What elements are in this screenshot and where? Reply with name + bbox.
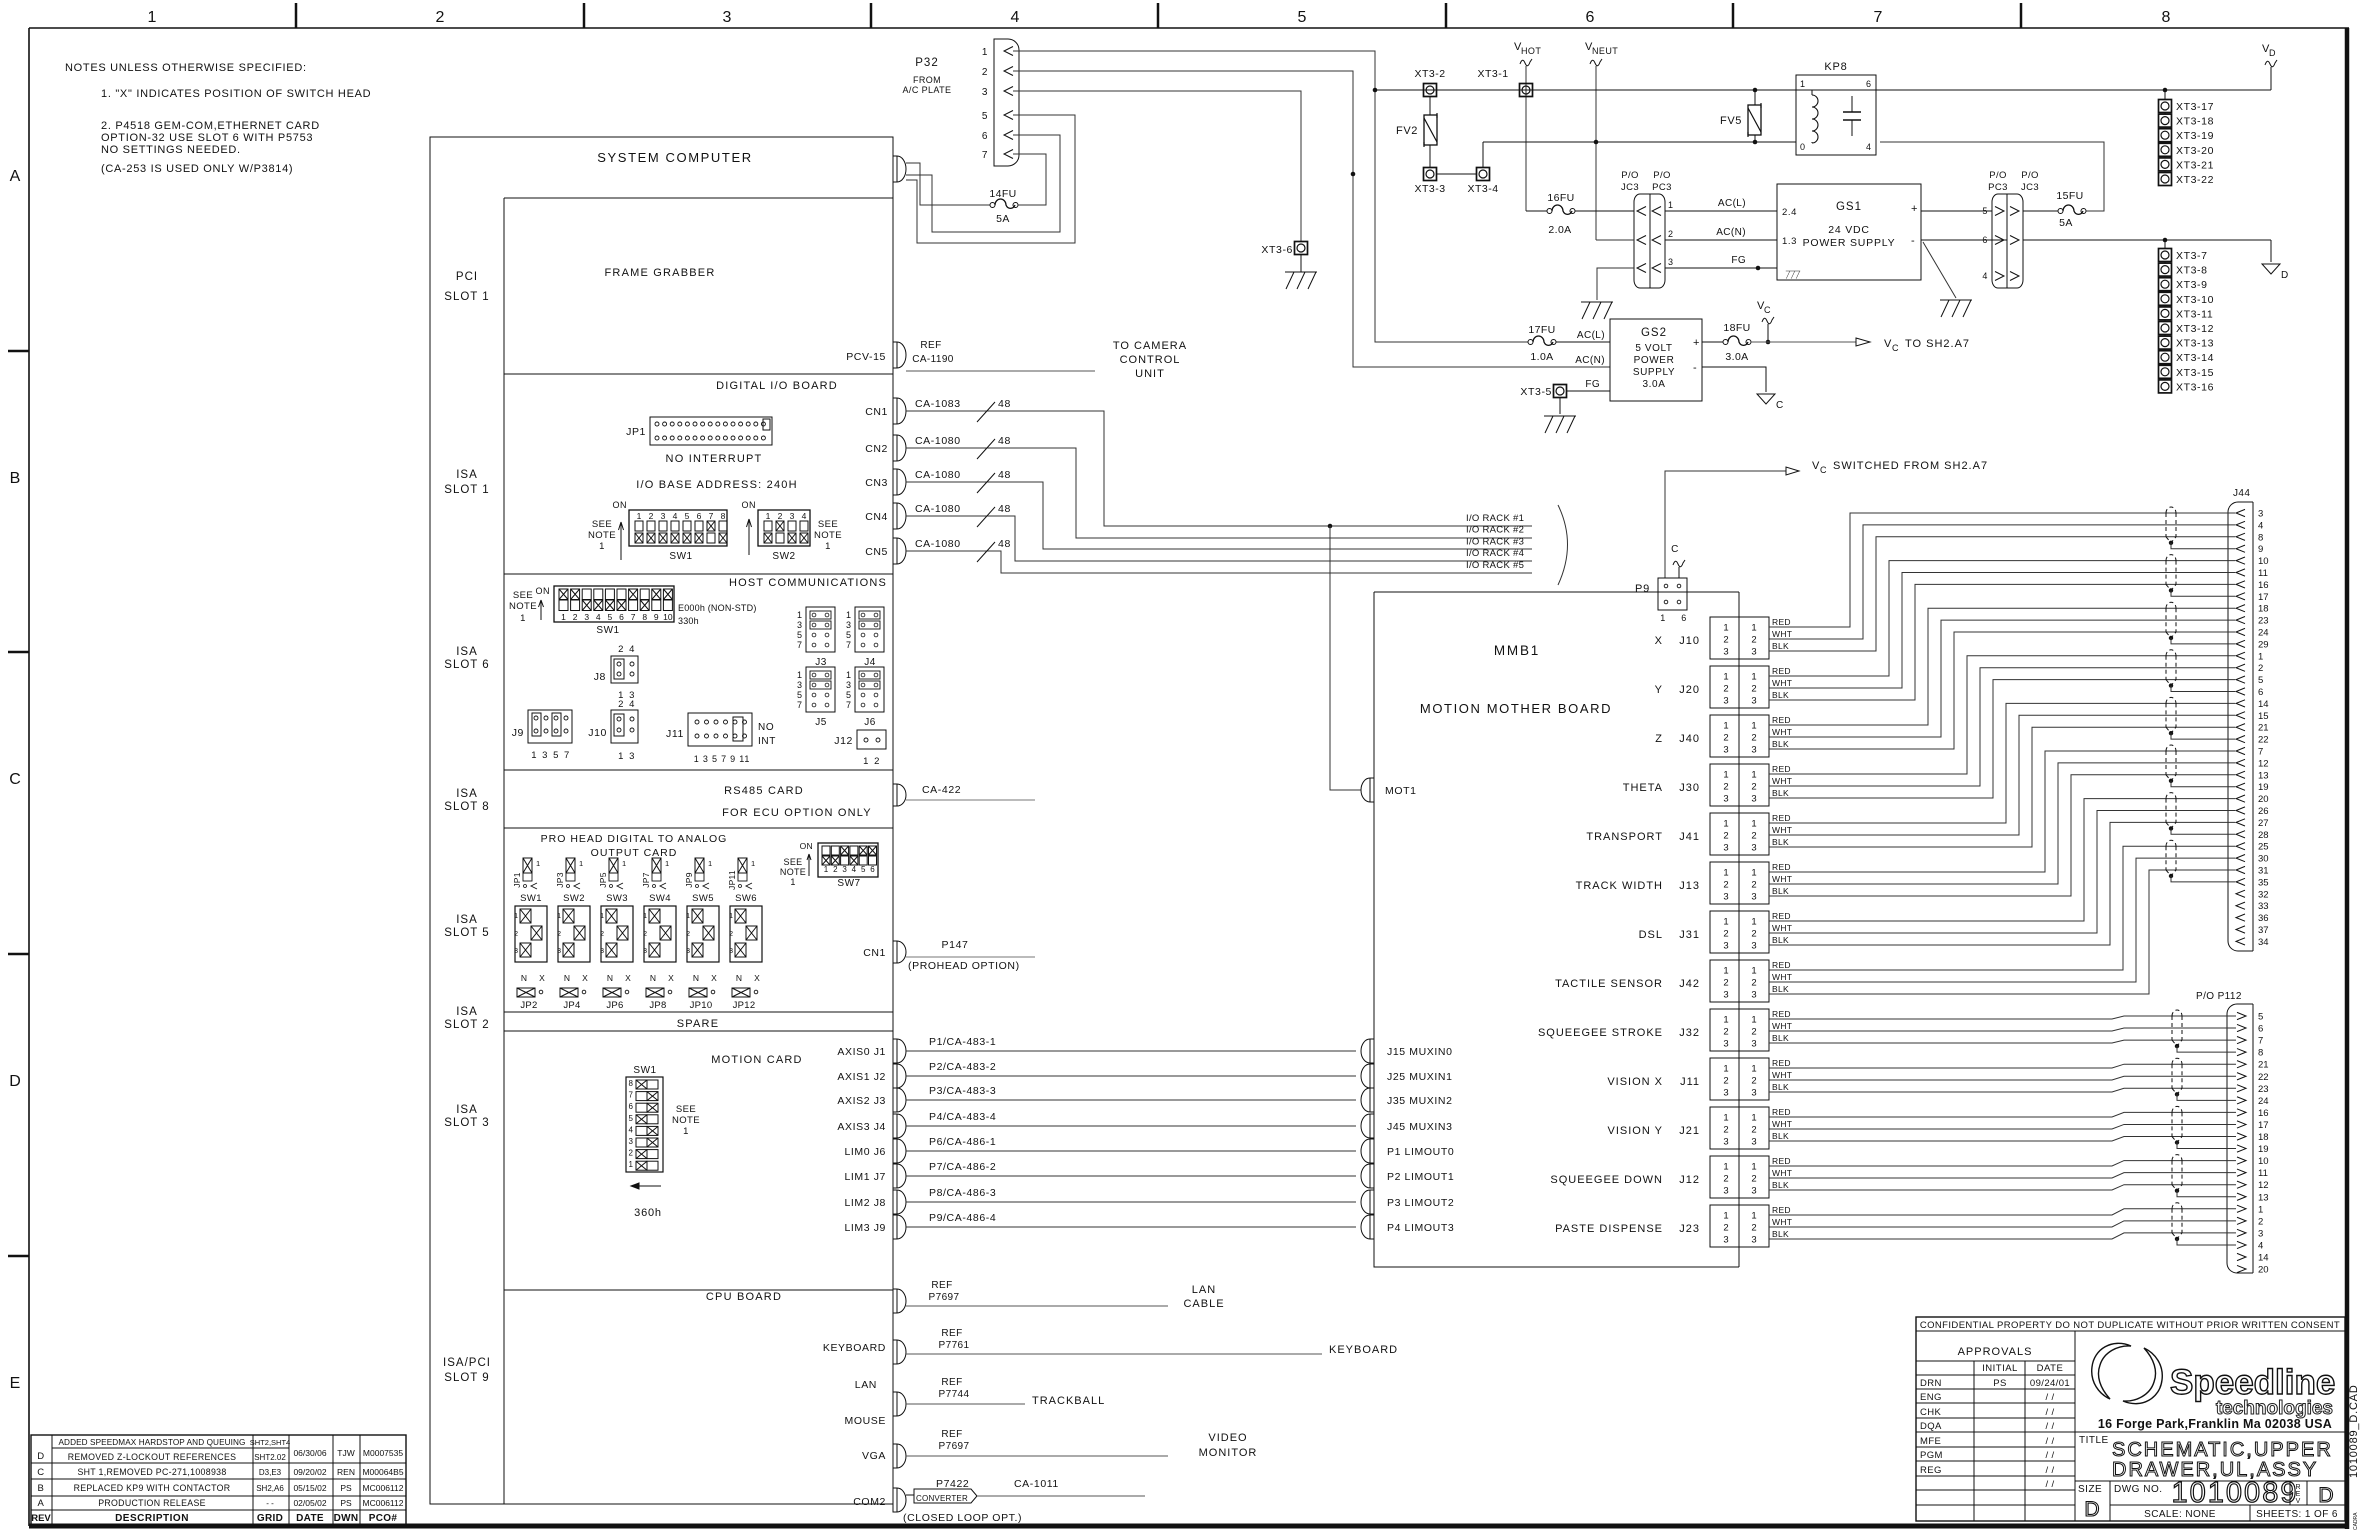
ground below XT3-6: [1300, 255, 1302, 272]
wire JC3-3 FG drop to ground: [1597, 268, 1634, 300]
connector P3: [1361, 1190, 1374, 1214]
svg-text:NOTE: NOTE: [509, 601, 537, 612]
jumper block J9: [528, 710, 572, 743]
connector CN1 P147: [893, 941, 906, 963]
wire J31 pin3 to J44-27: [1769, 822, 2235, 945]
svg-text:JP4: JP4: [563, 1000, 580, 1011]
connector J32 SQUEEGEE STROKE: [1710, 1009, 1739, 1051]
svg-text:SLOT 8: SLOT 8: [444, 801, 489, 813]
svg-text:3: 3: [600, 948, 604, 955]
svg-text:10: 10: [663, 612, 673, 622]
svg-text:XT3-3: XT3-3: [1414, 183, 1445, 195]
svg-text:P2/CA-483-2: P2/CA-483-2: [929, 1061, 996, 1073]
svg-text:15: 15: [2258, 711, 2269, 722]
svg-text:AXIS2 J3: AXIS2 J3: [837, 1095, 886, 1107]
wire VHOT to 16FU: [1525, 66, 1527, 211]
svg-text:PRODUCTION RELEASE: PRODUCTION RELEASE: [98, 1498, 206, 1508]
svg-text:SEE: SEE: [513, 590, 533, 601]
svg-text:XT3-4: XT3-4: [1467, 183, 1498, 195]
svg-text:4: 4: [852, 865, 857, 874]
svg-text:RED: RED: [1772, 813, 1791, 823]
svg-text:48: 48: [998, 503, 1011, 515]
svg-text:1: 1: [1723, 1211, 1728, 1222]
svg-text:20: 20: [2258, 1265, 2269, 1276]
svg-text:1: 1: [1751, 770, 1756, 781]
svg-text:-: -: [1911, 235, 1915, 247]
svg-text:P/O: P/O: [1989, 170, 2007, 181]
shield drain to P112-13: [2177, 1191, 2236, 1197]
svg-text:2: 2: [1751, 1174, 1756, 1185]
svg-text:RED: RED: [1772, 1205, 1791, 1215]
svg-text:2: 2: [1751, 1125, 1756, 1136]
svg-text:6: 6: [1866, 79, 1872, 89]
svg-text:21: 21: [2258, 1060, 2269, 1071]
svg-text:1: 1: [683, 1126, 689, 1137]
svg-text:AC(L): AC(L): [1718, 198, 1746, 209]
svg-text:CN1: CN1: [863, 947, 886, 959]
svg-text:22: 22: [2258, 735, 2269, 746]
svg-text:3.0A: 3.0A: [1725, 351, 1748, 363]
svg-text:1: 1: [1723, 623, 1728, 634]
svg-text:LAN: LAN: [1192, 1284, 1216, 1296]
wire J10 pin2 to J44-4: [1769, 525, 2235, 639]
svg-text:8: 8: [629, 1079, 634, 1088]
svg-text:2: 2: [1723, 1174, 1728, 1185]
svg-text:23: 23: [2258, 616, 2269, 627]
svg-text:5A: 5A: [996, 213, 1010, 225]
svg-text:2: 2: [1751, 978, 1756, 989]
svg-text:1 3 5 7: 1 3 5 7: [531, 750, 571, 761]
svg-text:5: 5: [685, 511, 690, 521]
P112 pin 13 arrow: [2237, 1193, 2246, 1200]
J44 pin 25 arrow: [2236, 843, 2245, 850]
shield drain to J44-17: [2171, 590, 2235, 596]
svg-text:KEYBOARD: KEYBOARD: [823, 1342, 886, 1354]
jumper header J11: [688, 713, 752, 746]
svg-text:BLK: BLK: [1772, 935, 1789, 945]
connector J13 TRACK WIDTH: [1710, 862, 1739, 904]
svg-text:SW1: SW1: [633, 1065, 656, 1076]
svg-text:1: 1: [557, 913, 561, 920]
svg-text:2: 2: [1751, 782, 1756, 793]
svg-text:PS: PS: [1993, 1378, 2006, 1389]
svg-text:JP9: JP9: [684, 872, 694, 888]
svg-text:24 VDC: 24 VDC: [1828, 224, 1870, 236]
svg-text:AXIS3 J4: AXIS3 J4: [837, 1121, 886, 1133]
svg-text:13: 13: [2258, 1192, 2269, 1203]
svg-text:XT3-6: XT3-6: [1261, 244, 1293, 256]
connector J35: [1361, 1088, 1374, 1112]
connector LIM3: [893, 1215, 906, 1239]
svg-text:XT3-13: XT3-13: [2176, 338, 2214, 350]
svg-text:1: 1: [708, 859, 712, 868]
svg-text:22: 22: [2258, 1072, 2269, 1083]
svg-text:7: 7: [846, 640, 851, 650]
svg-text:AC(N): AC(N): [1575, 355, 1605, 366]
svg-text:3: 3: [1723, 1186, 1728, 1197]
wire CN4 to I/O rack 4: [906, 516, 1532, 561]
svg-text:WHT: WHT: [1772, 825, 1792, 835]
svg-text:SWITCHED FROM SH2.A7: SWITCHED FROM SH2.A7: [1833, 460, 1988, 472]
svg-text:1: 1: [1751, 868, 1756, 879]
svg-text:SIZE: SIZE: [2078, 1484, 2102, 1495]
svg-text:8: 8: [721, 511, 726, 521]
svg-text:OUTPUT CARD: OUTPUT CARD: [591, 847, 678, 859]
svg-text:B: B: [10, 470, 21, 487]
J44 pin 31 arrow: [2236, 866, 2245, 873]
svg-text:1: 1: [1751, 966, 1756, 977]
svg-text:3: 3: [842, 865, 847, 874]
svg-text:N: N: [736, 973, 742, 983]
svg-text:36: 36: [2258, 913, 2269, 924]
svg-text:2: 2: [1723, 1125, 1728, 1136]
svg-text:06/30/06: 06/30/06: [293, 1448, 326, 1458]
card column divider: [503, 198, 505, 1504]
jumper blocks J3 J4 J5 J6: [806, 607, 835, 652]
connector MOUSE trackball: [893, 1392, 906, 1416]
fuse 14FU: [990, 203, 995, 208]
svg-text:LIM3 J9: LIM3 J9: [844, 1222, 886, 1234]
svg-text:/ /: / /: [2045, 1392, 2054, 1403]
svg-text:X: X: [668, 973, 674, 983]
svg-text:3: 3: [1751, 990, 1756, 1001]
J44 pin 4 arrow: [2236, 521, 2245, 528]
J44 pin 12 arrow: [2236, 759, 2245, 766]
shield drain to J44-28: [2171, 828, 2235, 834]
svg-text:24: 24: [2258, 1096, 2269, 1107]
svg-text:SLOT 1: SLOT 1: [444, 484, 489, 496]
J44 pin 1 arrow: [2236, 652, 2245, 659]
svg-text:J20: J20: [1679, 684, 1700, 696]
svg-text:3: 3: [1751, 696, 1756, 707]
svg-text:I/O RACK #5: I/O RACK #5: [1466, 560, 1524, 571]
svg-text:FV2: FV2: [1396, 125, 1418, 137]
svg-text:V: V: [1812, 460, 1820, 472]
connector CN5: [893, 538, 906, 564]
svg-text:J6: J6: [864, 717, 876, 728]
svg-text:8: 8: [2162, 9, 2171, 26]
svg-text:6: 6: [2258, 687, 2263, 698]
svg-text:X: X: [625, 973, 631, 983]
svg-text:JC3: JC3: [1621, 182, 1639, 193]
svg-text:2: 2: [1751, 929, 1756, 940]
wire GS1+ to PC3 out: [1921, 210, 1992, 212]
svg-text:SHEETS: 1 OF 6: SHEETS: 1 OF 6: [2256, 1509, 2338, 1520]
svg-text:J45 MUXIN3: J45 MUXIN3: [1387, 1121, 1453, 1133]
svg-text:BLK: BLK: [1772, 1180, 1789, 1190]
svg-text:CA-1190: CA-1190: [912, 354, 954, 365]
svg-text:3: 3: [1723, 1235, 1728, 1246]
svg-text:XT3-1: XT3-1: [1477, 68, 1508, 80]
svg-text:REF: REF: [920, 340, 941, 351]
svg-text:1: 1: [1668, 200, 1674, 210]
svg-text:2: 2: [1723, 1027, 1728, 1038]
svg-text:PGM: PGM: [1920, 1450, 1943, 1461]
connector MOT1: [1361, 778, 1374, 802]
svg-text:SW7: SW7: [837, 878, 860, 889]
svg-text:LIM1 J7: LIM1 J7: [844, 1171, 886, 1183]
svg-text:RED: RED: [1772, 715, 1791, 725]
svg-text:3: 3: [982, 87, 988, 98]
svg-text:J8: J8: [594, 671, 606, 683]
svg-text:9: 9: [2258, 544, 2263, 555]
connector AXIS3: [893, 1114, 906, 1138]
svg-text:XT3-15: XT3-15: [2176, 367, 2214, 379]
svg-text:P4 LIMOUT3: P4 LIMOUT3: [1387, 1222, 1454, 1234]
svg-text:C: C: [37, 1467, 44, 1478]
svg-text:P7697: P7697: [939, 1441, 970, 1452]
shield capsule group J20: [2166, 555, 2176, 561]
svg-text:-: -: [1693, 362, 1697, 374]
svg-text:M0007535: M0007535: [363, 1448, 403, 1458]
svg-text:D3,E3: D3,E3: [259, 1468, 282, 1477]
svg-text:/ /: / /: [2045, 1407, 2054, 1418]
svg-text:P32: P32: [915, 57, 938, 69]
svg-text:RED: RED: [1772, 911, 1791, 921]
shield drain to J44-35: [2171, 876, 2235, 882]
svg-text:XT3-7: XT3-7: [2176, 250, 2208, 262]
svg-text:3: 3: [584, 612, 589, 622]
svg-text:PC3: PC3: [1652, 182, 1672, 193]
svg-text:1: 1: [1723, 917, 1728, 928]
svg-text:P7422: P7422: [936, 1478, 969, 1490]
svg-text:XT3-5: XT3-5: [1520, 386, 1552, 398]
J44 pin 30 arrow: [2236, 855, 2245, 862]
svg-text:1: 1: [751, 859, 755, 868]
svg-text:7: 7: [1874, 9, 1883, 26]
svg-text:5: 5: [2258, 675, 2263, 686]
svg-text:31: 31: [2258, 866, 2269, 877]
wire 16FU to JC3-1: [1575, 210, 1634, 212]
J44 pin 17 arrow: [2236, 593, 2245, 600]
svg-text:POWER SUPPLY: POWER SUPPLY: [1803, 237, 1896, 249]
svg-text:CA-1011: CA-1011: [1014, 1478, 1059, 1490]
svg-text:+: +: [1693, 337, 1700, 349]
J44 pin 2 arrow: [2236, 664, 2245, 671]
J44 pin 9 arrow: [2236, 545, 2245, 552]
fuse 16FU: [1547, 209, 1552, 214]
svg-text:DRN: DRN: [1920, 1378, 1942, 1389]
shield capsule group J31: [2166, 793, 2176, 799]
svg-text:SYSTEM COMPUTER: SYSTEM COMPUTER: [597, 150, 752, 165]
svg-text:SLOT 2: SLOT 2: [444, 1019, 489, 1031]
wire J10 pin3 to J44-8: [1769, 537, 2235, 651]
terminal XT3-1: [1520, 84, 1533, 97]
svg-text:25: 25: [2258, 842, 2269, 853]
P112 pin 1 arrow: [2237, 1205, 2246, 1212]
svg-text:0: 0: [1800, 142, 1806, 152]
svg-text:technologies: technologies: [2216, 1398, 2333, 1419]
svg-text:MOTION MOTHER BOARD: MOTION MOTHER BOARD: [1420, 701, 1612, 716]
svg-text:JP3: JP3: [555, 872, 565, 888]
wire CN1 to I/O rack 1: [906, 411, 1532, 526]
svg-text:19: 19: [2258, 782, 2269, 793]
wire AXIS1 to J25: [906, 1075, 1356, 1077]
svg-text:1: 1: [797, 610, 802, 620]
svg-text:LIM2 J8: LIM2 J8: [844, 1197, 886, 1209]
connector P4: [1361, 1215, 1374, 1239]
fuse 17FU: [1528, 340, 1533, 345]
svg-text:J11: J11: [1680, 1076, 1700, 1088]
J44 pin 37 arrow: [2236, 926, 2245, 933]
J44 pin 19 arrow: [2236, 783, 2245, 790]
svg-text:1 2: 1 2: [863, 756, 881, 767]
svg-text:3: 3: [1751, 794, 1756, 805]
svg-text:RED: RED: [1772, 1156, 1791, 1166]
J44 pin 26 arrow: [2236, 807, 2245, 814]
svg-text:1: 1: [1751, 1064, 1756, 1075]
svg-text:1: 1: [637, 511, 642, 521]
svg-text:P1/CA-483-1: P1/CA-483-1: [929, 1036, 996, 1048]
svg-text:JP11: JP11: [727, 870, 737, 890]
svg-text:NEUT: NEUT: [1592, 46, 1618, 56]
computer connector wires to P32 pins 5 6 7: [906, 163, 990, 205]
svg-text:XT3-9: XT3-9: [2176, 279, 2208, 291]
svg-text:1: 1: [825, 541, 831, 552]
svg-text:N: N: [564, 973, 570, 983]
svg-text:5: 5: [797, 690, 802, 700]
motion mother board MMB1 box: [1374, 591, 1739, 593]
svg-text:ISA: ISA: [456, 1104, 478, 1116]
connector J20 Y: [1710, 666, 1739, 708]
svg-text:WHT: WHT: [1772, 678, 1792, 688]
J44 pin 27 arrow: [2236, 819, 2245, 826]
svg-text:/ /: / /: [2045, 1436, 2054, 1447]
svg-text:3: 3: [1751, 745, 1756, 756]
svg-text:P/O: P/O: [1653, 170, 1671, 181]
svg-text:POWER: POWER: [1634, 355, 1675, 366]
svg-text:CN5: CN5: [865, 546, 888, 558]
svg-text:SQUEEGEE STROKE: SQUEEGEE STROKE: [1538, 1027, 1663, 1039]
shield drain to J44-9: [2171, 543, 2235, 549]
svg-text:6: 6: [619, 612, 624, 622]
svg-text:6: 6: [870, 865, 875, 874]
svg-text:BLK: BLK: [1772, 984, 1789, 994]
connector J45: [1361, 1114, 1374, 1138]
wire J30 pin2 to J44-2: [1769, 668, 2235, 786]
svg-text:BLK: BLK: [1772, 1229, 1789, 1239]
svg-text:09/20/02: 09/20/02: [293, 1467, 326, 1477]
svg-text:7: 7: [846, 700, 851, 710]
svg-text:28: 28: [2258, 830, 2269, 841]
svg-text:3: 3: [729, 948, 733, 955]
svg-text:2: 2: [1751, 831, 1756, 842]
svg-text:J12: J12: [834, 735, 853, 747]
svg-text:3: 3: [1751, 647, 1756, 658]
wire AXIS0 to J15: [906, 1050, 1356, 1052]
svg-text:/ /: / /: [2045, 1479, 2054, 1490]
connector AXIS2: [893, 1088, 906, 1112]
wire J32 pin3 to P112-7: [1769, 1040, 2236, 1043]
svg-text:10: 10: [2258, 556, 2269, 567]
dip switch SW1 host comm: [554, 586, 674, 622]
connector P9: [1658, 578, 1687, 610]
svg-text:32: 32: [2258, 889, 2269, 900]
svg-text:6: 6: [1681, 613, 1687, 623]
wire J11 pin1 to P112-21: [1769, 1064, 2236, 1068]
svg-text:BLK: BLK: [1772, 1033, 1789, 1043]
svg-text:JP1: JP1: [512, 872, 522, 888]
connector J31 DSL: [1710, 911, 1739, 953]
svg-text:SEE: SEE: [784, 857, 803, 867]
svg-text:1: 1: [790, 877, 795, 887]
svg-text:ISA: ISA: [456, 646, 478, 658]
svg-text:SHT2,SHT4: SHT2,SHT4: [250, 1438, 290, 1447]
svg-text:33: 33: [2258, 901, 2269, 912]
shield drain to J44-6: [2171, 686, 2235, 692]
wire 15FU to PC3 out pin5: [2023, 210, 2058, 212]
J44 pin 34 arrow: [2236, 938, 2245, 945]
P112 pin 23 arrow: [2237, 1085, 2246, 1092]
svg-text:SW2: SW2: [772, 551, 795, 562]
svg-text:P9: P9: [1635, 583, 1650, 595]
svg-text:7: 7: [631, 612, 636, 622]
svg-text:29: 29: [2258, 639, 2269, 650]
svg-text:3: 3: [1723, 941, 1728, 952]
svg-text:BLK: BLK: [1772, 641, 1789, 651]
svg-text:12: 12: [2258, 758, 2269, 769]
svg-text:WHT: WHT: [1772, 972, 1792, 982]
svg-text:JP7: JP7: [641, 872, 651, 888]
svg-text:3: 3: [723, 9, 732, 26]
svg-text:ON: ON: [742, 500, 757, 510]
svg-text:FG: FG: [1585, 379, 1600, 390]
wire J32 pin2 to P112-6: [1769, 1028, 2236, 1031]
terminal XT3-2: [1424, 84, 1437, 97]
power supply GS2: [1610, 319, 1702, 401]
shield capsule group J13: [2166, 745, 2176, 751]
svg-text:3: 3: [1723, 745, 1728, 756]
wire VHOT riser to 16FU: [1526, 210, 1547, 212]
svg-text:CA-422: CA-422: [922, 784, 961, 796]
svg-text:VISION Y: VISION Y: [1608, 1125, 1663, 1137]
svg-text:WHT: WHT: [1772, 629, 1792, 639]
wire LIM0 to P1: [906, 1150, 1356, 1152]
svg-text:SCHEMATIC,UPPER: SCHEMATIC,UPPER: [2112, 1439, 2333, 1461]
wire J13 pin2 to J44-12: [1769, 763, 2235, 884]
svg-text:3: 3: [1723, 696, 1728, 707]
J44 pin 16 arrow: [2236, 581, 2245, 588]
svg-text:1: 1: [1751, 1162, 1756, 1173]
svg-text:MOTION CARD: MOTION CARD: [711, 1054, 802, 1066]
svg-text:NOTE: NOTE: [780, 867, 806, 877]
svg-text:B: B: [38, 1483, 45, 1494]
svg-text:XT3-10: XT3-10: [2176, 294, 2214, 306]
svg-text:1: 1: [824, 865, 829, 874]
svg-text:XT3-16: XT3-16: [2176, 381, 2214, 393]
connector P2: [1361, 1164, 1374, 1188]
connector LAN cable port: [893, 1289, 906, 1313]
svg-text:1: 1: [599, 541, 605, 552]
svg-text:MFE: MFE: [1920, 1436, 1941, 1447]
svg-text:17FU: 17FU: [1528, 324, 1555, 336]
svg-text:5: 5: [1298, 9, 1307, 26]
connector to P32 on computer edge: [893, 156, 906, 182]
svg-text:X: X: [1655, 635, 1663, 647]
svg-text:5A: 5A: [2059, 217, 2073, 229]
svg-text:P2 LIMOUT1: P2 LIMOUT1: [1387, 1171, 1454, 1183]
svg-text:2: 2: [1723, 684, 1728, 695]
svg-text:+: +: [1911, 203, 1918, 215]
svg-text:2: 2: [573, 612, 578, 622]
P112 pin 18 arrow: [2237, 1133, 2246, 1140]
svg-text:SCALE: NONE: SCALE: NONE: [2144, 1509, 2216, 1520]
svg-text:SW4: SW4: [649, 893, 671, 904]
svg-text:NOTES UNLESS OTHERWISE SPECIFI: NOTES UNLESS OTHERWISE SPECIFIED:: [65, 62, 307, 74]
svg-text:RED: RED: [1772, 617, 1791, 627]
svg-text:5: 5: [846, 690, 851, 700]
svg-text:3: 3: [1751, 843, 1756, 854]
